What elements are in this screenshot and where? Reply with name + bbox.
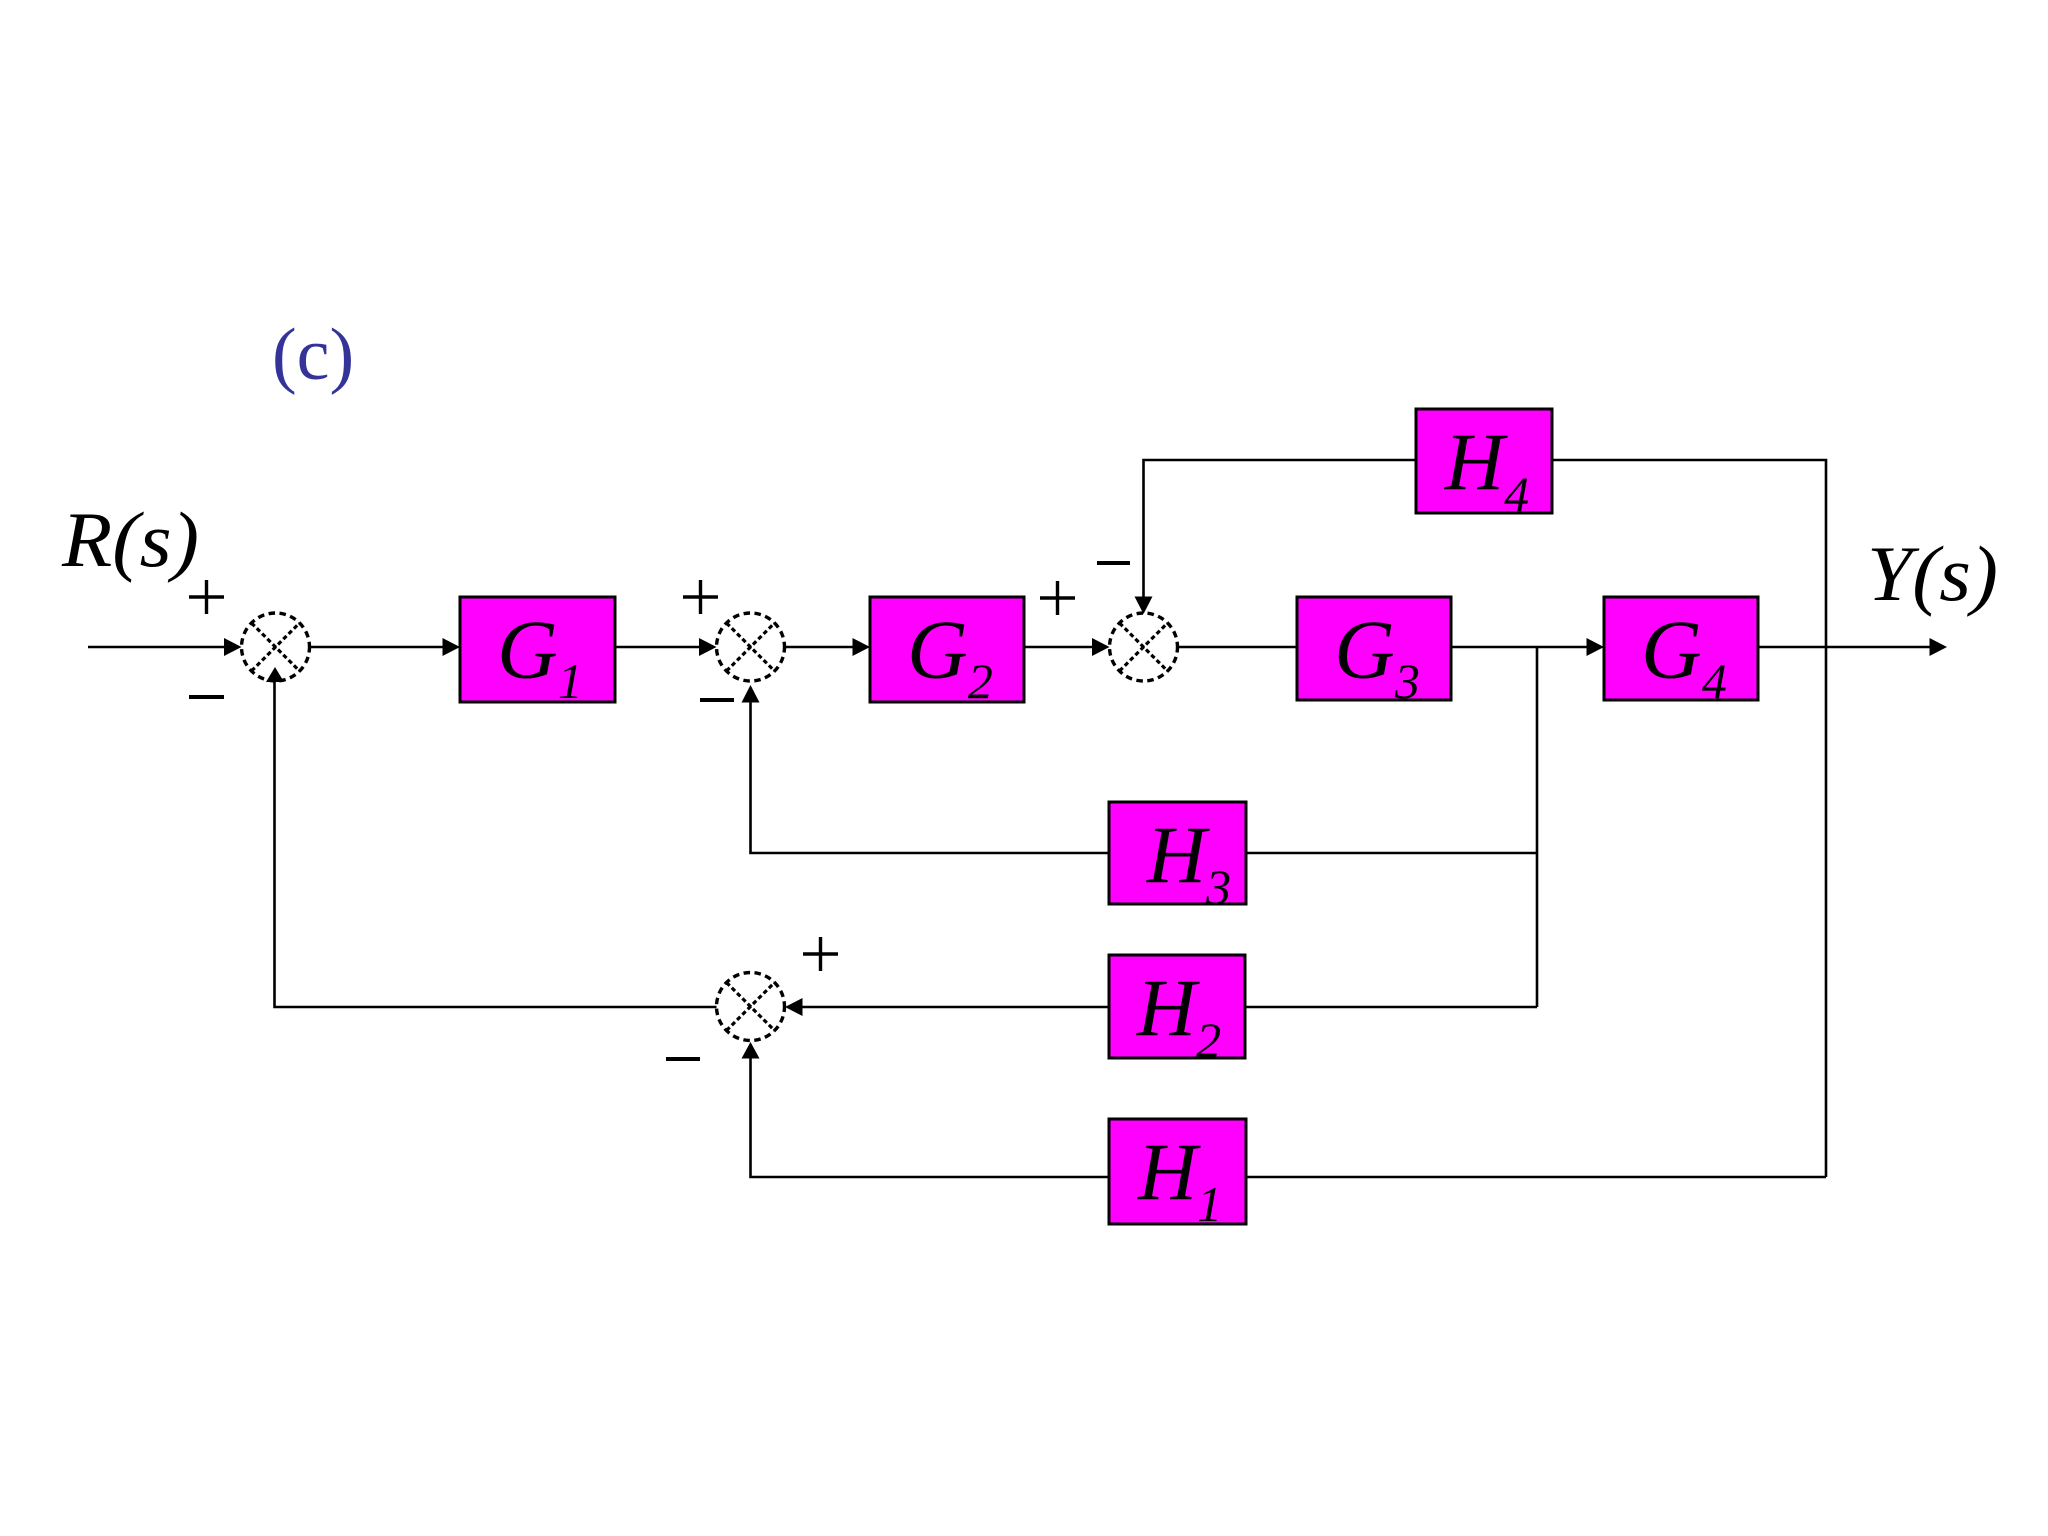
wire H3 right to tap vertical (1246, 852, 1537, 855)
arrowhead up into S2 bottom (742, 685, 760, 703)
output arrowhead (1930, 638, 1948, 656)
summing junction S4 (717, 973, 785, 1041)
vertical wire below S4 down to H1 row, wire H1 left (751, 1058, 1110, 1177)
vertical wire below S2 down to H3 row (751, 702, 1110, 853)
wire S1 to G1 (310, 646, 447, 649)
wire H1 right to output vertical (1246, 1176, 1826, 1179)
arrowhead into S3 (1092, 638, 1110, 656)
arrowhead into S1 (224, 638, 242, 656)
svg-text:Y(s): Y(s) (1867, 530, 1998, 617)
wire H2 right to tap vertical (1245, 1006, 1537, 1009)
block G4 (1604, 597, 1758, 709)
block G1 (460, 597, 615, 709)
wire H4 left feedback to S3 (1144, 460, 1417, 599)
minus sign at S2 (700, 698, 734, 702)
arrowhead down into S3 top (1135, 597, 1153, 615)
wire G1 to summing junction S2 (615, 646, 702, 649)
arrowhead left into S4 (785, 998, 803, 1016)
block H4 (1416, 409, 1552, 522)
block H2 (1109, 955, 1245, 1068)
wire H2 left into summing junction S4 (802, 1006, 1109, 1009)
block H3 (1109, 802, 1246, 915)
minus sign at S1 (189, 695, 224, 699)
wire input R(s) to summing junction S1 (88, 646, 226, 649)
summing junction S3 (1110, 613, 1178, 681)
summing junction S1 (242, 613, 310, 681)
wire H4 right to output vertical down to H1 row (1552, 460, 1826, 1177)
plus sign at S1 (189, 580, 224, 614)
svg-text:(c): (c) (272, 314, 354, 396)
minus sign at S4 (666, 1057, 700, 1061)
wire G2 to summing junction S3 (1024, 646, 1095, 649)
wire G3 to G4 with tap node (1451, 646, 1590, 649)
wire S3 to G3 (1178, 646, 1298, 649)
plus sign at S3 (1040, 581, 1075, 615)
summing junction S2 (717, 613, 785, 681)
arrowhead into S2 (699, 638, 717, 656)
wire S4 output left and up into S1 bottom (275, 682, 717, 1007)
minus sign at S3 (1097, 561, 1130, 565)
arrowhead up into S4 bottom (742, 1042, 760, 1059)
block G2 (870, 597, 1024, 709)
wire S2 to G2 (785, 646, 857, 649)
block G3 (1297, 597, 1451, 709)
tap vertical between G3 and G4 down to H2 row (1536, 647, 1539, 1007)
plus sign at S2 (683, 580, 718, 614)
block H1 (1109, 1119, 1246, 1232)
arrowhead into G2 (853, 638, 871, 656)
arrowhead up into S1 bottom (266, 667, 284, 682)
wire G4 to output Y(s) (1758, 646, 1933, 649)
plus sign at S4 (803, 937, 838, 971)
arrowhead into G1 (443, 638, 461, 656)
svg-text:R(s): R(s) (61, 496, 199, 583)
arrowhead into G4 (1587, 638, 1605, 656)
